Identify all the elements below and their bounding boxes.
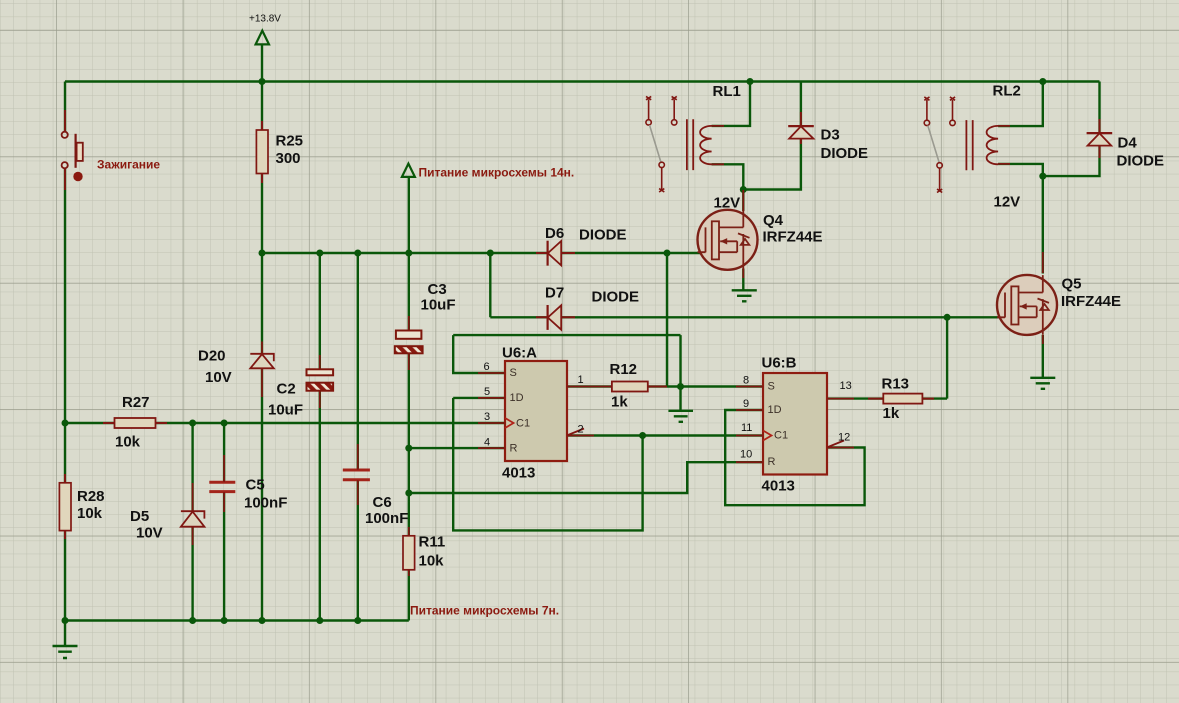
- node top rail / RL1: [747, 78, 754, 85]
- svg-text:R28: R28: [77, 488, 105, 505]
- svg-text:1: 1: [578, 374, 584, 386]
- zener D5: [181, 483, 205, 545]
- pin numbers U6:B: [740, 375, 852, 461]
- svg-text:10k: 10k: [419, 553, 445, 570]
- IC U6:A 4013 flip-flop: [478, 361, 612, 461]
- wire Q4 source to ground: [742, 269, 744, 291]
- svg-text:R13: R13: [882, 376, 910, 393]
- svg-text:D20: D20: [198, 348, 226, 365]
- wire R13 to gate bus x947.1: [946, 317, 948, 398]
- resistor R28 leads: [64, 474, 66, 539]
- relay RL2 contact: [924, 97, 955, 193]
- svg-text:Питание микросхемы 7н.: Питание микросхемы 7н.: [410, 604, 559, 618]
- capacitor C5: [209, 455, 235, 512]
- wire R12 output to U6:B S: [567, 385, 763, 387]
- wire Q4 source red stub: [742, 269, 744, 279]
- transistor Q4 IRFZ44E: [698, 210, 758, 270]
- wire divider rail R27 to U6:A C1: [65, 422, 505, 424]
- svg-text:8: 8: [743, 375, 749, 387]
- wire C2 branch: [319, 253, 321, 621]
- svg-text:DIODE: DIODE: [1117, 153, 1165, 170]
- resistor R12: [612, 382, 648, 392]
- svg-text:12V: 12V: [994, 194, 1021, 211]
- svg-text:Q4: Q4: [763, 212, 784, 229]
- wire 14n power terminal branch x408.8: [408, 177, 410, 621]
- svg-text:D7: D7: [545, 285, 564, 302]
- wire R13 leads: [827, 397, 947, 399]
- wire U6:A Q2 to U6:B C1 y435.5: [567, 434, 763, 436]
- svg-text:U6:A: U6:A: [502, 345, 537, 362]
- svg-text:D4: D4: [1118, 135, 1138, 152]
- transistor Q5 IRFZ44E: [997, 275, 1057, 335]
- svg-text:11: 11: [741, 422, 752, 434]
- svg-text:13: 13: [840, 380, 852, 392]
- wire button bottom to divider rail: [64, 168, 66, 620]
- wire gate supply bus y253: [262, 252, 700, 254]
- svg-text:100nF: 100nF: [365, 510, 408, 527]
- wire +13.8V stem: [261, 44, 263, 81]
- svg-text:DIODE: DIODE: [821, 145, 869, 162]
- svg-text:10: 10: [740, 449, 752, 461]
- node ground rail / D20: [259, 617, 266, 624]
- svg-text:U6:B: U6:B: [762, 355, 797, 372]
- node top rail / RL2: [1039, 78, 1046, 85]
- node gate bus / R13: [944, 314, 951, 321]
- svg-text:9: 9: [743, 398, 749, 410]
- resistor R11 bottom lead red: [408, 527, 410, 576]
- svg-text:C1: C1: [774, 430, 788, 442]
- svg-text:Q5: Q5: [1062, 276, 1082, 293]
- svg-text:10k: 10k: [77, 505, 103, 522]
- wire Q5 source red stub: [1042, 335, 1044, 344]
- ground Q4 source: [732, 290, 757, 301]
- node gate bus / C3: [405, 250, 412, 257]
- resistor R11: [403, 536, 415, 570]
- node ground rail / C5: [221, 617, 228, 624]
- svg-text:10uF: 10uF: [421, 297, 456, 314]
- wire Q5 source to ground: [1042, 335, 1044, 378]
- IC U6:B 4013 flip-flop: [736, 373, 854, 475]
- wire button top lead: [64, 82, 66, 132]
- wire U6:A S pin lead: [453, 335, 505, 373]
- node R12 / S / ground: [677, 383, 684, 390]
- svg-text:5: 5: [484, 386, 490, 398]
- svg-text:4: 4: [484, 437, 490, 449]
- wire RL1 coil bottom to Q4 drain: [712, 164, 744, 211]
- svg-text:12: 12: [838, 432, 850, 444]
- capacitor C6: [343, 444, 370, 505]
- wire D7 bus to Q5 gate y317.3: [490, 316, 999, 318]
- svg-text:+13.8V: +13.8V: [249, 14, 281, 25]
- resistor R27 leads: [103, 422, 167, 424]
- svg-text:IRFZ44E: IRFZ44E: [763, 229, 823, 246]
- node gate bus / D7 branch: [487, 250, 494, 257]
- wire top rail +13.8V: [65, 80, 1100, 82]
- wire S feedback drop and ground stub x680.5: [679, 335, 681, 411]
- node divider rail left: [62, 420, 69, 427]
- svg-text:S: S: [768, 381, 775, 393]
- svg-text:6: 6: [484, 361, 490, 373]
- wire C5 branch: [223, 423, 225, 621]
- node U6:A Q2 feedback: [639, 432, 646, 439]
- svg-text:C5: C5: [246, 477, 265, 494]
- wire RL2 coil bottom to Q5 drain: [998, 164, 1043, 274]
- svg-text:R: R: [510, 443, 518, 455]
- wire C6 branch: [357, 253, 359, 621]
- svg-text:1k: 1k: [611, 394, 628, 411]
- svg-text:10k: 10k: [115, 434, 141, 451]
- wire Q5 drain red stub: [1042, 252, 1044, 273]
- node gate bus / R12 branch: [664, 250, 671, 257]
- resistor R25: [256, 130, 268, 174]
- node RL1 drain / D3: [740, 186, 747, 193]
- ground R12 node: [668, 411, 693, 422]
- svg-text:1k: 1k: [883, 405, 900, 422]
- diode D4: [1087, 119, 1113, 158]
- wire D5 branch: [191, 423, 193, 621]
- relay RL2 coil: [966, 120, 1010, 170]
- svg-text:300: 300: [276, 150, 301, 167]
- wire ground stub left: [64, 621, 66, 647]
- svg-text:R11: R11: [419, 534, 446, 551]
- node RC / U6:B R: [405, 490, 412, 497]
- node gate bus / C2: [316, 250, 323, 257]
- svg-text:C3: C3: [428, 281, 447, 298]
- wire gate bus to R12 node x667: [666, 253, 668, 387]
- node top rail / R25: [259, 78, 266, 85]
- diode D7: [536, 305, 575, 330]
- svg-text:C6: C6: [373, 494, 392, 511]
- relay RL1 coil: [687, 119, 724, 170]
- capacitor C2 polarized: [307, 355, 334, 408]
- wire U6:B Q12 feedback to 1D: [725, 410, 864, 505]
- wire R25 branch x262: [261, 82, 263, 621]
- wire bottom ground rail: [65, 619, 409, 621]
- svg-text:IRFZ44E: IRFZ44E: [1061, 293, 1121, 310]
- resistor R28: [59, 483, 71, 531]
- node ground rail left: [62, 617, 69, 624]
- svg-text:100nF: 100nF: [244, 495, 287, 512]
- svg-text:D6: D6: [545, 225, 564, 242]
- svg-text:10uF: 10uF: [268, 402, 303, 419]
- ground left: [53, 646, 78, 658]
- node RC / U6:A R: [405, 445, 412, 452]
- svg-text:3: 3: [484, 411, 490, 423]
- capacitor C3 polarized: [395, 316, 423, 370]
- wire U6:A S feedback y335.1: [453, 334, 680, 336]
- svg-text:R: R: [768, 456, 776, 468]
- ground Q5 source: [1030, 378, 1055, 389]
- svg-text:Питание микросхемы 14н.: Питание микросхемы 14н.: [419, 166, 575, 180]
- resistor R27: [115, 418, 156, 428]
- wire RL1 coil red leads / Q4 drain red: [742, 190, 744, 211]
- node ground rail / D5: [189, 617, 196, 624]
- svg-text:D5: D5: [130, 508, 149, 525]
- svg-text:1D: 1D: [768, 404, 782, 416]
- svg-text:10V: 10V: [136, 525, 163, 542]
- diode D3: [788, 112, 814, 144]
- svg-text:RL2: RL2: [993, 83, 1021, 100]
- node divider rail / D5: [189, 420, 196, 427]
- node RL2 drain / D4: [1039, 173, 1046, 180]
- svg-text:10V: 10V: [205, 369, 232, 386]
- wire D6-D7 link x490.3: [489, 253, 491, 317]
- wire D3 bottom to drain node: [743, 139, 801, 190]
- zener D20: [250, 342, 273, 398]
- resistor R25 leads: [261, 121, 263, 183]
- svg-text:C2: C2: [277, 381, 296, 398]
- wire U6:A 1D feedback: [453, 398, 642, 531]
- button Зажигание: [62, 110, 83, 190]
- svg-text:4013: 4013: [762, 478, 795, 495]
- svg-text:D3: D3: [821, 127, 840, 144]
- pin names U6:A: [510, 367, 531, 455]
- power +13.8V terminal: [256, 31, 269, 45]
- svg-text:2: 2: [578, 424, 584, 436]
- power terminal 14n: [402, 164, 415, 177]
- svg-text:1D: 1D: [510, 392, 524, 404]
- svg-text:12V: 12V: [714, 195, 741, 212]
- wire RL2 coil top: [998, 82, 1043, 127]
- wire U6:B R pin to RC node y493: [409, 462, 763, 493]
- diode D6: [536, 241, 575, 266]
- node gate bus / C6: [354, 250, 361, 257]
- node divider rail / C5: [221, 420, 228, 427]
- svg-text:R27: R27: [122, 394, 150, 411]
- resistor R13 leads: [868, 398, 934, 400]
- node gate bus / D20: [259, 250, 266, 257]
- pin numbers U6:A: [484, 361, 584, 449]
- svg-text:DIODE: DIODE: [579, 227, 627, 244]
- svg-text:Зажигание: Зажигание: [97, 158, 160, 172]
- node ground rail / C6: [354, 617, 361, 624]
- relay RL1 contact: [646, 96, 677, 192]
- node ground rail / C2: [316, 617, 323, 624]
- resistor R12 right lead: [648, 386, 667, 388]
- wire U6:A R pin to RC node: [409, 447, 505, 449]
- svg-text:DIODE: DIODE: [592, 289, 640, 306]
- svg-text:4013: 4013: [502, 465, 535, 482]
- wire RL1 coil top: [712, 82, 750, 126]
- resistor R13: [883, 394, 922, 404]
- svg-text:S: S: [510, 367, 517, 379]
- pin names U6:B: [768, 381, 789, 469]
- svg-text:RL1: RL1: [713, 83, 741, 100]
- svg-text:R25: R25: [276, 133, 304, 150]
- wire D3 top lead: [800, 82, 802, 127]
- wire D4 top lead: [1098, 82, 1100, 134]
- svg-text:R12: R12: [610, 361, 638, 378]
- svg-text:C1: C1: [516, 418, 530, 430]
- wire D4 bottom to Q5 drain node: [1043, 146, 1100, 177]
